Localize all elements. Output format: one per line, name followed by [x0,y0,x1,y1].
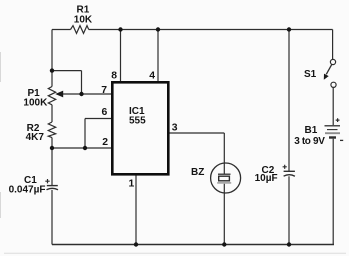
svg-text:4K7: 4K7 [26,132,45,143]
svg-text:4: 4 [149,71,155,82]
svg-text:100K: 100K [23,98,48,109]
svg-text:6: 6 [102,107,108,118]
svg-text:555: 555 [129,116,146,127]
svg-text:0.047µF: 0.047µF [9,185,46,196]
svg-text:BZ: BZ [191,167,204,178]
svg-text:3 to 9V: 3 to 9V [294,136,325,147]
svg-text:8: 8 [111,71,117,82]
svg-text:B1: B1 [305,125,318,136]
svg-text:3: 3 [172,122,178,133]
svg-text:2: 2 [102,137,108,148]
svg-text:7: 7 [101,85,107,96]
svg-text:10µF: 10µF [255,173,278,184]
svg-text:S1: S1 [304,69,317,80]
svg-text:10K: 10K [74,15,93,26]
svg-text:1: 1 [129,179,135,190]
